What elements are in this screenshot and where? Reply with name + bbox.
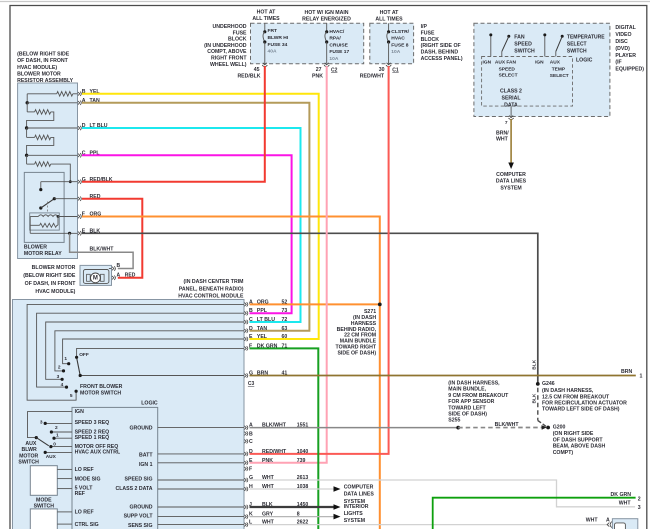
wire ORG: resistor F to module A and S271 down [82,217,380,529]
module connector pins A-L (lower) [244,426,246,430]
svg-text:BLWR: BLWR [22,447,38,453]
I/P fuse block box [370,23,414,63]
svg-text:COMPUTER: COMPUTER [344,484,374,490]
svg-text:TEMP: TEMP [552,67,566,73]
svg-text:IGN: IGN [535,60,544,66]
svg-text:COMPUTER: COMPUTER [496,172,526,178]
wire BLK: resistor E to G246 [82,233,538,384]
svg-text:73: 73 [282,308,288,314]
node G200 [546,426,550,430]
wire WHT 2622 to connector [250,524,609,526]
svg-text:C: C [249,317,253,323]
module logic box [72,407,158,529]
svg-text:AUX: AUX [46,454,57,460]
svg-text:FUSE 8: FUSE 8 [391,42,408,48]
wire BLK/WHT: E BLK row to blower motor B [70,233,134,268]
svg-text:1040: 1040 [297,449,309,455]
fuse 8 CLSTR/HVAC 10A [388,23,390,32]
svg-text:30: 30 [379,67,385,73]
svg-text:10A: 10A [329,56,338,62]
svg-text:(BELOW RIGHT SIDE: (BELOW RIGHT SIDE [23,273,76,279]
svg-text:DATA LINES: DATA LINES [344,492,375,498]
svg-text:SIDE OF DASH): SIDE OF DASH) [448,412,487,418]
wire: speed4 path to pin B [37,313,244,387]
fuse 34 FRT BLWR HI 40A [264,23,266,32]
front blower switch blade [77,359,80,376]
svg-text:LT BLU: LT BLU [257,317,275,323]
svg-text:BEAM, ABOVE DASH: BEAM, ABOVE DASH [553,444,606,450]
svg-text:CRUISE: CRUISE [329,42,348,48]
svg-text:GROUND: GROUND [129,504,152,510]
svg-text:COMPT): COMPT) [553,450,574,456]
svg-text:A: A [249,299,253,305]
svg-text:D: D [249,449,253,455]
svg-text:SENS SIG: SENS SIG [128,523,153,529]
svg-text:(ON RIGHT SIDE: (ON RIGHT SIDE [553,431,594,437]
svg-text:BRN: BRN [621,369,632,375]
svg-text:SYSTEM: SYSTEM [500,185,521,191]
motor pins [109,268,112,270]
svg-text:SPEED 1 REQ: SPEED 1 REQ [75,435,110,441]
svg-text:SIDE OF DASH): SIDE OF DASH) [337,350,376,356]
svg-text:LO REF: LO REF [75,467,94,473]
svg-text:FOR RECIRCULATION ACTUATOR: FOR RECIRCULATION ACTUATOR [542,401,627,407]
svg-text:DATA LINES: DATA LINES [496,179,527,185]
svg-text:YEL: YEL [257,334,268,340]
svg-text:PNK: PNK [312,74,323,80]
svg-text:SERIAL: SERIAL [501,96,521,102]
svg-text:1: 1 [56,432,59,438]
svg-text:1: 1 [64,356,67,362]
svg-text:3: 3 [57,374,60,380]
node: coil to F ORG [57,215,60,218]
svg-text:DIGITAL: DIGITAL [615,25,636,31]
svg-text:60: 60 [282,334,288,340]
svg-text:SYSTEM: SYSTEM [344,518,365,524]
arrow to computer data lines [508,163,514,170]
node: chain meets G RED/BLK row [69,180,72,183]
wire: speed2 path to pin D [55,331,244,371]
svg-text:INTERIOR: INTERIOR [344,504,369,510]
svg-text:I/P: I/P [421,24,428,30]
svg-text:AUX: AUX [25,441,36,447]
svg-text:VIDEO: VIDEO [615,32,631,38]
wire BRN: module G to right edge [250,375,636,377]
svg-text:27: 27 [316,67,322,73]
svg-text:SELECT: SELECT [499,73,518,79]
wire: G RED/BLK row into relay [41,181,78,183]
svg-text:(IN DASH HARNESS,: (IN DASH HARNESS, [542,388,594,394]
svg-text:C2: C2 [331,67,338,73]
svg-text:IGN: IGN [483,60,492,66]
svg-text:FOR APP SENSOR: FOR APP SENSOR [448,399,494,405]
svg-text:FRT: FRT [268,28,278,34]
temperature select switch [544,36,546,57]
svg-text:HVAC/: HVAC/ [329,29,344,35]
svg-text:SWITCH: SWITCH [34,503,55,509]
svg-text:5: 5 [70,393,73,399]
wire BRN/WHT (class 2 serial data) [510,119,512,163]
motor M1 symbol [87,274,91,281]
wire: F ORG row inside box [58,216,78,218]
svg-text:739: 739 [297,458,306,464]
wire WHT 2613 to edge [250,480,636,507]
relay contact (fixed) [39,188,42,191]
svg-text:BRN: BRN [257,371,268,377]
svg-text:LOGIC: LOGIC [141,400,158,406]
internal wires logic to pins [158,427,244,429]
svg-text:SPEED: SPEED [499,66,516,72]
blower motor box [80,265,112,285]
svg-text:IGN 1: IGN 1 [139,462,153,468]
svg-text:SPEED SIG: SPEED SIG [125,477,153,483]
svg-text:WHT: WHT [586,518,599,524]
svg-text:HOT W/ IGN MAIN: HOT W/ IGN MAIN [304,10,348,16]
svg-text:GROUND: GROUND [129,426,152,432]
svg-text:1: 1 [640,374,643,380]
svg-text:BLWR HI: BLWR HI [268,35,289,41]
svg-text:FUSE 34: FUSE 34 [268,42,288,48]
svg-text:FUSE: FUSE [233,30,247,36]
svg-text:DK GRN: DK GRN [611,492,632,498]
svg-text:4: 4 [61,382,64,388]
svg-text:OF DASH, IN FRONT: OF DASH, IN FRONT [17,58,69,64]
svg-text:COMPT, ABOVE: COMPT, ABOVE [207,49,247,55]
svg-text:PNK: PNK [262,458,273,464]
wire PPL: resistor C to module B [82,155,292,313]
node: TAN tap junction [26,101,29,104]
svg-text:B: B [249,308,253,314]
wire: coil low side to E BLK row [29,225,31,233]
wire: C PPL row [27,154,78,156]
relay coil (inductor) [30,216,38,218]
dashed BLK ground lead [537,388,539,421]
svg-text:DK GRN: DK GRN [257,343,278,349]
svg-text:BLOWER MOTOR: BLOWER MOTOR [32,265,76,271]
wire: A TAN row [27,102,77,104]
svg-text:CLASS 2: CLASS 2 [500,88,522,94]
svg-text:REF: REF [75,491,85,497]
svg-text:45: 45 [254,67,260,73]
svg-text:HOT AT: HOT AT [380,10,400,16]
svg-text:FRONT BLOWER: FRONT BLOWER [80,384,123,390]
svg-text:ORG: ORG [257,299,269,305]
resistor R1 (speed 4 tap) [73,93,78,95]
dashed BLK/WHT to G200 [458,427,544,429]
coil suppression resistor [29,217,31,226]
blower motor relay box [24,172,64,242]
fan speed switch [490,36,492,57]
svg-text:UNDERHOOD: UNDERHOOD [212,24,246,30]
svg-text:WHT: WHT [496,137,509,143]
svg-text:MAIN BUNDLE,: MAIN BUNDLE, [448,387,486,393]
underhood fuse block box [251,23,364,63]
svg-text:SPEED: SPEED [514,42,532,48]
svg-text:RED/BLK: RED/BLK [237,74,260,80]
wire RED/WHT: fuse 8 to module D [250,66,389,454]
sensor box (cut off) [30,509,57,529]
svg-text:71: 71 [282,343,288,349]
svg-text:10A: 10A [391,49,400,55]
wire: chain to TAN tap [26,94,28,103]
resistor assembly pin connectors [78,92,80,96]
svg-text:EQUIPPED): EQUIPPED) [615,67,644,73]
node S271 [378,303,382,307]
svg-text:ACCESS PANEL): ACCESS PANEL) [421,56,463,62]
wire: D LT BLU row [27,127,78,129]
svg-text:C3: C3 [248,381,255,387]
wire: switch common to pin G [80,375,244,377]
svg-text:WHT: WHT [619,501,632,507]
ground G200 arrow [542,425,547,430]
svg-text:12.5 CM FROM BREAKOUT: 12.5 CM FROM BREAKOUT [542,394,610,400]
svg-text:TOWARD LEFT SIDE OF DASH): TOWARD LEFT SIDE OF DASH) [542,407,620,413]
svg-text:SWITCH: SWITCH [514,49,535,55]
svg-text:LIGHTS: LIGHTS [344,511,364,517]
svg-text:PLAYER: PLAYER [615,53,636,59]
svg-text:3: 3 [638,505,641,511]
svg-text:BLK: BLK [531,393,537,403]
DVD player outer box [474,23,610,116]
wire: chain end to G row [51,164,71,182]
svg-text:HVAC MODULE): HVAC MODULE) [35,289,75,295]
svg-text:SWITCH: SWITCH [18,460,39,466]
svg-text:C: C [249,439,253,445]
front blower motor switch contacts [75,356,78,359]
svg-text:G200: G200 [553,425,566,431]
blower motor inner loop [83,270,109,284]
wire: speed1 path to pin E [63,339,244,364]
wire PNK: fuse 17 to module E [250,66,327,463]
svg-text:RPA/: RPA/ [329,36,341,42]
wire: OFF path to pin F [77,348,244,357]
hvac control module box [13,300,245,529]
svg-text:7: 7 [505,120,508,126]
fuse 17 HVAC/RPA/CRUISE 10A [326,23,328,32]
svg-text:ALL TIMES: ALL TIMES [252,16,280,22]
wire: class 2 data out of DVD [510,106,512,116]
svg-text:CLSTR/: CLSTR/ [391,29,409,35]
svg-text:40A: 40A [268,49,277,55]
resistor R4 [26,155,28,164]
svg-text:PPL: PPL [257,308,268,314]
svg-text:63: 63 [282,326,288,332]
mode switch box [30,466,57,496]
svg-text:E: E [249,334,253,340]
svg-text:BLOCK: BLOCK [228,37,247,43]
wire: speed5 path to pin A [27,304,244,400]
relay coil box [30,213,60,230]
svg-text:BLK/WHT: BLK/WHT [495,422,520,428]
svg-text:OF DASH SUPPORT: OF DASH SUPPORT [553,437,604,443]
svg-text:S255: S255 [448,418,460,424]
svg-text:A: A [606,518,610,524]
svg-text:TEMPERATURE: TEMPERATURE [567,35,605,41]
DVD logic inner box [482,57,573,107]
svg-text:(BELOW RIGHT SIDE: (BELOW RIGHT SIDE [17,51,70,57]
page top gray rule [0,1,650,3]
svg-text:C1: C1 [392,67,399,73]
svg-text:OF DASH, IN FRONT: OF DASH, IN FRONT [25,281,77,287]
relay blade [41,199,55,208]
svg-text:HOT AT: HOT AT [257,10,277,16]
svg-text:2: 2 [638,497,641,503]
svg-text:RED/WHT: RED/WHT [262,449,287,455]
svg-text:BLK/WHT: BLK/WHT [90,246,115,252]
wire RED/BLK: fuse 34 to resistor G [82,66,265,182]
svg-text:(IN UNDERHOOD: (IN UNDERHOOD [204,43,247,49]
wire YEL: resistor B to module E [82,94,319,339]
svg-text:LO REF: LO REF [75,510,94,516]
svg-text:2: 2 [55,425,58,431]
svg-text:SPEED 3 REQ: SPEED 3 REQ [75,420,110,426]
wire: speed3 path to pin C [46,322,244,379]
svg-text:BLOWER MOTOR: BLOWER MOTOR [17,72,61,78]
svg-text:SWITCH: SWITCH [567,48,587,54]
svg-text:RELAY ENERGIZED: RELAY ENERGIZED [302,17,351,23]
svg-text:DISC: DISC [615,39,628,45]
blower motor resistor assembly box [18,83,78,259]
fuse block output connectors [263,63,267,65]
svg-text:SELECT: SELECT [567,41,587,47]
resistor R3 [26,128,28,137]
svg-text:BATT: BATT [139,453,153,459]
aux blwr motor switch [28,412,73,438]
wire: blade to RED pin [54,198,77,200]
svg-text:G: G [249,371,253,377]
node: LT BLU tap junction [25,126,28,129]
svg-text:LOGIC: LOGIC [576,58,593,64]
svg-text:FAN: FAN [514,35,525,41]
wire RED: relay to blower motor A [82,199,142,278]
relay pivot contact [39,206,42,209]
svg-text:(IF: (IF [615,60,621,66]
svg-text:BLK: BLK [531,359,537,369]
wire LT BLU: resistor D to module C [82,128,301,322]
connector arc into box [610,522,612,528]
svg-text:72: 72 [282,317,288,323]
wire DK GRN: module F down [250,348,319,529]
svg-text:TAN: TAN [257,326,268,332]
svg-text:(DVD): (DVD) [615,46,630,52]
relay armature dashed link [47,202,49,213]
svg-text:SUPP VOLT: SUPP VOLT [124,514,154,520]
wire BLK 1450 [250,506,334,508]
svg-text:HVAC CONTROL MODULE: HVAC CONTROL MODULE [178,293,244,299]
svg-text:OFF: OFF [79,352,89,358]
aux switch blade [36,438,49,446]
wire BLK/WHT 1551 to S255 [250,427,459,429]
module connector pins A-G [244,303,246,307]
svg-text:HVAC AUX CNTRL: HVAC AUX CNTRL [75,450,121,456]
wire TAN: resistor A to module D [82,103,309,331]
svg-text:BLOWER: BLOWER [24,244,47,250]
svg-text:TOWARD LEFT: TOWARD LEFT [448,405,486,411]
svg-text:F: F [249,343,252,349]
svg-text:HVAC: HVAC [391,36,405,42]
svg-text:WHEEL WELL): WHEEL WELL) [210,62,247,68]
svg-text:RIGHT FRONT: RIGHT FRONT [211,56,247,62]
svg-text:CLASS 2 DATA: CLASS 2 DATA [116,486,153,492]
svg-text:52: 52 [282,299,288,305]
node: BLK/WHT branch on E BLK row [68,232,71,235]
resistor R2 [26,103,28,112]
svg-text:F: F [249,467,252,473]
svg-text:BRN/: BRN/ [496,130,509,136]
svg-text:AUX: AUX [550,60,561,66]
svg-text:ALL TIMES: ALL TIMES [375,17,403,23]
svg-text:DASH, BEHIND: DASH, BEHIND [421,50,459,56]
svg-text:3: 3 [40,419,43,425]
svg-text:(IN DASH HARNESS,: (IN DASH HARNESS, [448,381,500,387]
svg-text:CTRL SIG: CTRL SIG [75,522,99,528]
svg-text:9 CM FROM BREAKOUT: 9 CM FROM BREAKOUT [448,393,509,399]
svg-text:(IN DASH CENTER TRIM: (IN DASH CENTER TRIM [184,279,244,285]
wire WHT 1038 [250,488,334,490]
svg-text:PANEL, BENEATH RADIO): PANEL, BENEATH RADIO) [179,286,244,292]
wire GRY 8 [250,516,334,518]
svg-text:SELECT: SELECT [550,73,569,79]
svg-text:FUSE: FUSE [421,31,435,37]
svg-text:MOTOR RELAY: MOTOR RELAY [24,251,62,257]
svg-text:FUSE 17: FUSE 17 [329,49,349,55]
node G246 [536,382,540,386]
svg-text:2: 2 [58,365,61,371]
node: PPL tap junction [25,154,28,157]
svg-text:41: 41 [282,371,288,377]
svg-text:M: M [93,275,98,281]
svg-text:MOTOR SWITCH: MOTOR SWITCH [80,391,121,397]
node S255 [456,426,460,430]
svg-text:HVAC MODULE): HVAC MODULE) [17,65,57,71]
wire DK GRN lower right [433,498,636,529]
svg-text:E: E [249,458,253,464]
svg-text:AUX FAN: AUX FAN [495,60,517,66]
svg-text:BLOCK: BLOCK [421,37,440,43]
svg-text:(RIGHT SIDE OF: (RIGHT SIDE OF [421,43,461,49]
svg-text:MOTOR: MOTOR [19,454,38,460]
svg-text:RED/WHT: RED/WHT [360,74,385,80]
svg-text:MODE SIG: MODE SIG [75,476,101,482]
svg-text:D: D [249,326,253,332]
svg-text:IGN: IGN [75,409,84,415]
svg-text:0: 0 [53,442,56,448]
svg-text:B: B [249,431,253,437]
svg-text:G246: G246 [542,381,555,387]
